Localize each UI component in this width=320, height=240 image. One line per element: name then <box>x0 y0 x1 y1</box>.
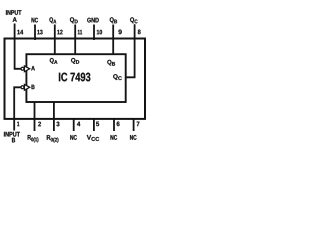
pin 1 lead + wire to clock input B <box>14 87 21 130</box>
pin 6 lead <box>113 119 115 131</box>
clock input label B <box>32 85 35 89</box>
pin number 5 <box>96 122 99 127</box>
pin number 1 <box>17 122 19 126</box>
label NC (pin 4) <box>70 135 77 140</box>
part name IC 7493 <box>59 73 90 82</box>
pin 3 lead <box>53 103 55 132</box>
internal counter block U1 <box>26 54 125 102</box>
pin 10 lead <box>93 25 95 41</box>
pin number 4 <box>77 122 80 126</box>
clock input A bubble <box>21 67 24 70</box>
clock input A wedge <box>24 66 29 72</box>
pin 7 lead <box>133 119 135 131</box>
label R0(2) (pin 3) <box>47 135 59 142</box>
IC package outline <box>5 39 146 119</box>
internal output QC <box>113 74 122 80</box>
internal output QD <box>71 58 79 64</box>
label R0(1) (pin 2) <box>28 135 39 142</box>
label QB (pin 9) <box>110 17 117 23</box>
label VCC (pin 5) <box>87 135 99 141</box>
pin 4 lead <box>73 119 75 131</box>
label QD (pin 11) <box>70 17 78 23</box>
pin number 11 <box>78 30 82 34</box>
clock input B bubble <box>21 86 24 89</box>
pin number 13 <box>37 30 42 35</box>
internal output QA <box>50 58 58 64</box>
pin number 12 <box>57 30 62 35</box>
label QA (pin 12) <box>49 17 56 23</box>
clock input B wedge <box>24 84 29 90</box>
label NC (pin 13) <box>32 18 38 23</box>
pin 14 lead + wire to clock input A <box>15 24 21 69</box>
label GND (pin 10) <box>87 18 99 23</box>
pin number 2 <box>38 122 41 127</box>
pin 11 lead <box>74 25 76 56</box>
pin number 14 <box>17 30 23 34</box>
clock input label A <box>31 66 35 70</box>
pin number 8 <box>138 30 141 35</box>
pin 9 lead <box>112 25 114 56</box>
label B (pin 1) <box>12 138 15 143</box>
label QC (pin 8) <box>130 17 137 23</box>
internal output QB <box>107 60 115 66</box>
pin 5 lead <box>93 119 95 131</box>
pin 13 lead <box>34 25 36 41</box>
label INPUT (pin 1) <box>4 132 20 137</box>
pin number 10 <box>97 30 102 35</box>
pin number 9 <box>118 30 121 35</box>
pin number 7 <box>137 122 140 126</box>
pin 8 lead + wire to QC output <box>126 24 134 77</box>
pin number 6 <box>117 122 120 127</box>
pin 2 lead <box>34 103 36 132</box>
label INPUT (pin 14) <box>6 10 21 15</box>
pin 12 lead <box>54 25 56 56</box>
label A (pin 14) <box>13 17 17 22</box>
pin number 3 <box>56 122 59 127</box>
label NC (pin 6) <box>111 135 118 140</box>
label NC (pin 7) <box>130 135 137 140</box>
